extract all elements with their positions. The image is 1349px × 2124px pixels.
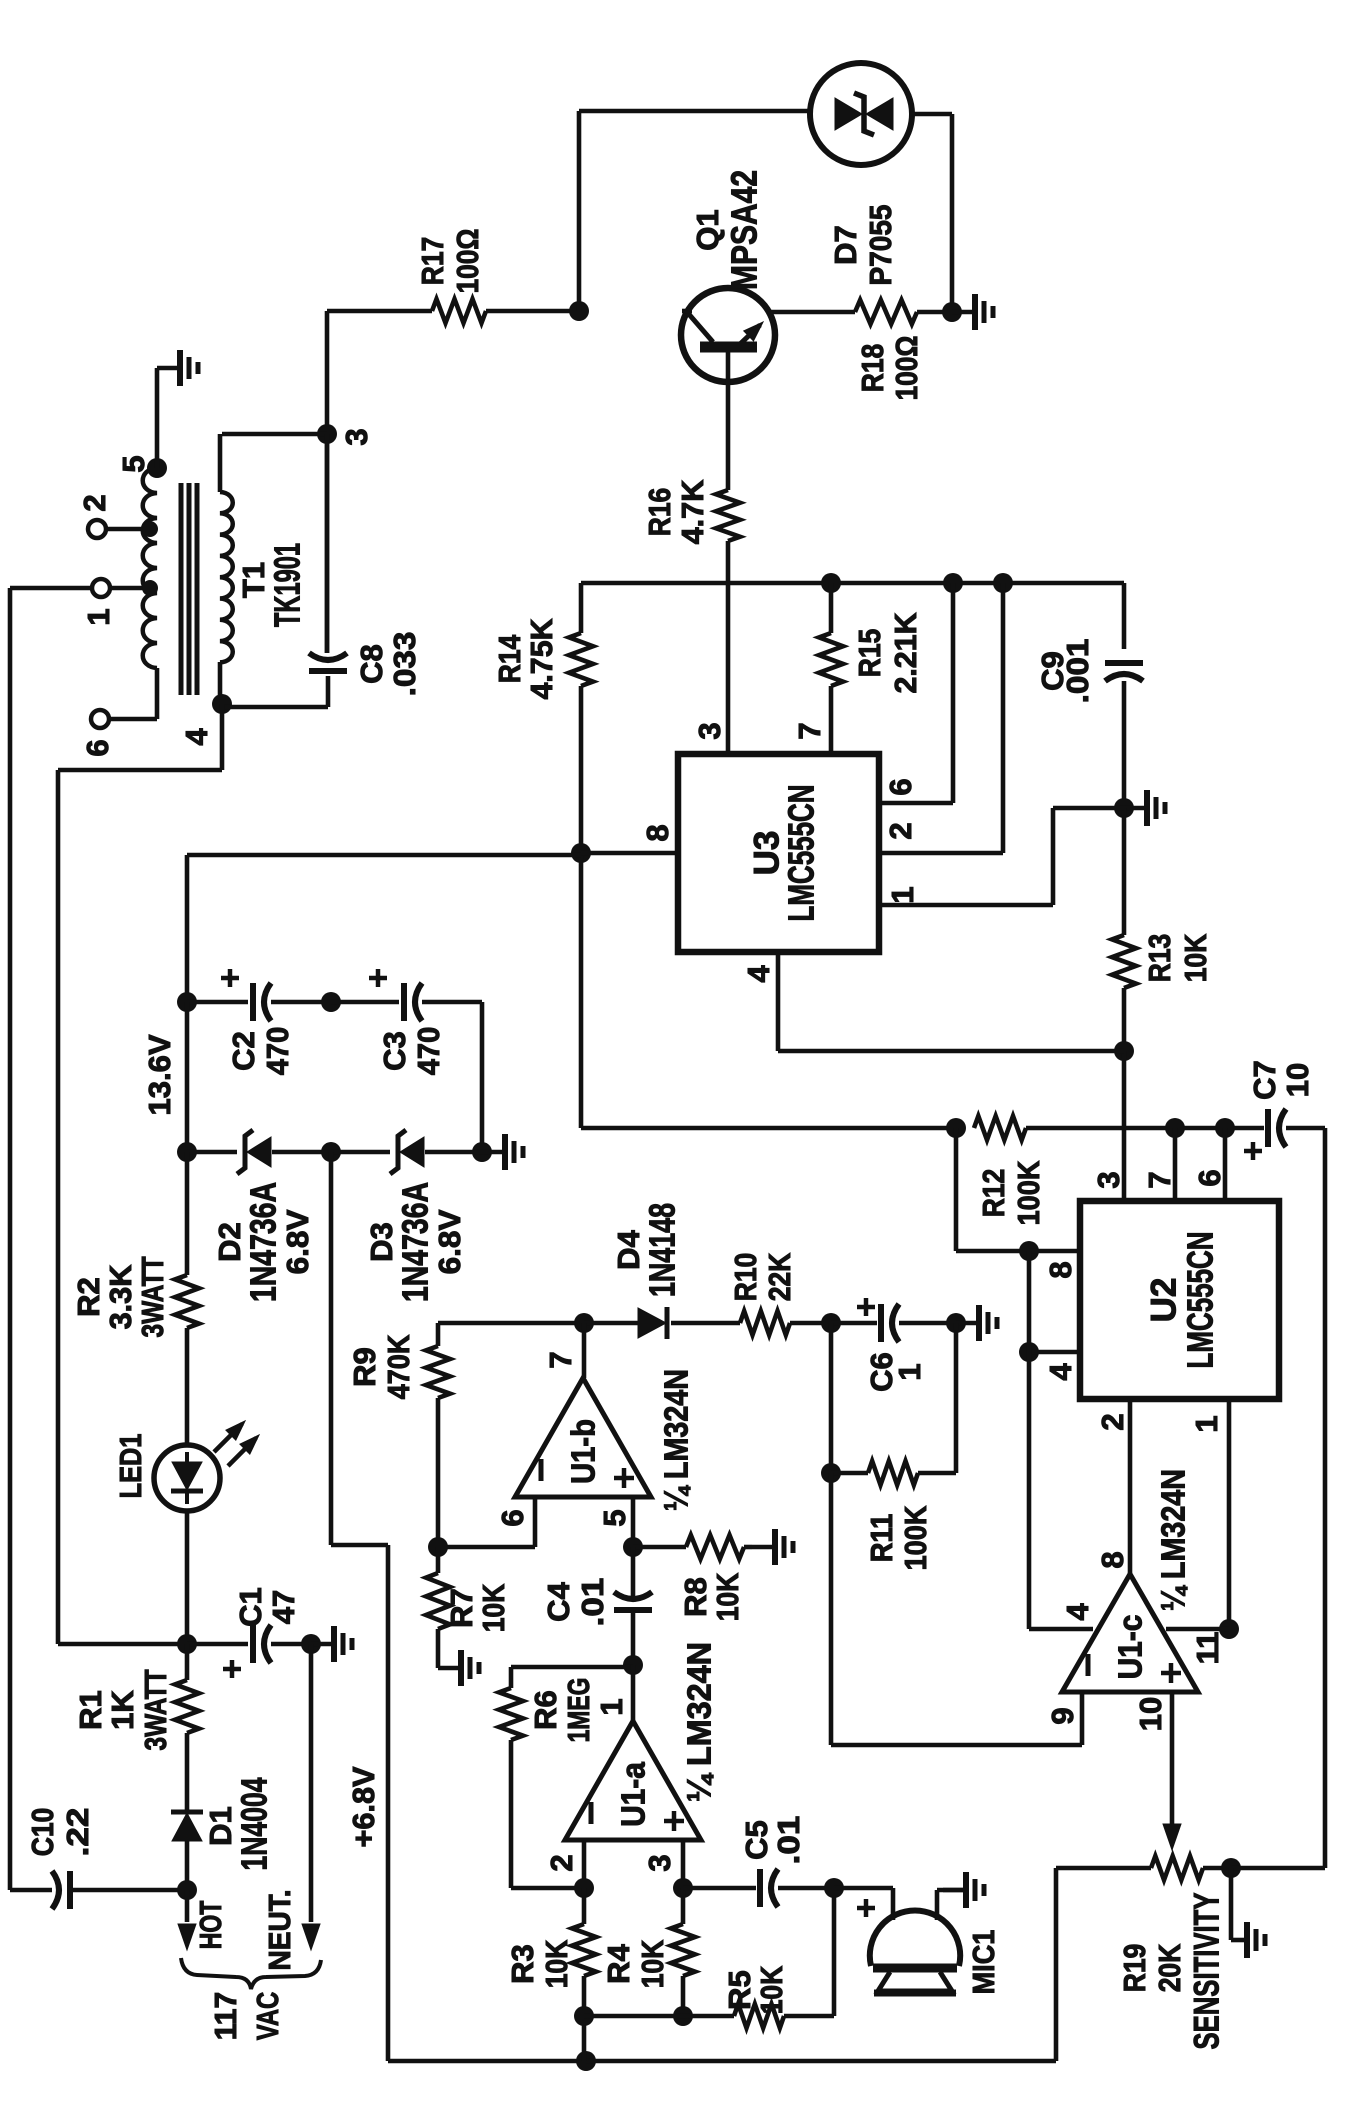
svg-text:4.7K: 4.7K (675, 479, 710, 544)
wire: to C10 (10, 1888, 52, 1893)
wire: U3 pin4 down (776, 952, 781, 1051)
resistor R15 (819, 633, 843, 686)
wire: rail to C7 (1026, 1126, 1264, 1131)
svg-text:R13: R13 (1142, 934, 1177, 983)
LED1 arrow 1 (214, 1424, 242, 1452)
svg-text:R17: R17 (415, 237, 450, 286)
resistor R17 (432, 299, 486, 323)
junction R19 right (1221, 1858, 1241, 1878)
wire: T1 pin3 lead (222, 432, 327, 437)
wire: pin1 to left rail (10, 586, 92, 591)
wire: U3 pin8 to node (581, 851, 678, 856)
wire: U2 pin2 to U1-c out (1128, 1399, 1133, 1574)
capacitor C2 (250, 983, 256, 1021)
junction U2 pin8 (1019, 1241, 1039, 1261)
svg-text:1: 1 (594, 1698, 629, 1715)
wire: pin5 to ground (155, 368, 160, 468)
wire: pin9 rail (831, 1743, 1082, 1748)
svg-text:6: 6 (80, 739, 115, 756)
ground at R19 (1231, 1938, 1245, 1943)
LED LED1 (154, 1445, 220, 1511)
wire: LED1 to C1 node (185, 1511, 190, 1644)
svg-text:3: 3 (1091, 1171, 1126, 1188)
wire: U1-c pin9 (1080, 1692, 1085, 1745)
svg-text:R18: R18 (855, 344, 890, 393)
wire: to R6 (511, 1665, 633, 1670)
junction R12 left (946, 1118, 966, 1138)
T1 core (179, 483, 184, 695)
wire: right rail down to R19 (1323, 1128, 1328, 1868)
junction C6/R11 (821, 1313, 841, 1333)
junction pin3/C5/R4 (673, 1878, 693, 1898)
wire: Q1 base stem (726, 350, 731, 384)
svg-text:1: 1 (81, 608, 116, 625)
svg-text:LMC555CN: LMC555CN (1180, 1232, 1221, 1369)
capacitor C9 (1105, 660, 1143, 666)
svg-text:100K: 100K (898, 1505, 933, 1570)
svg-text:C4: C4 (541, 1581, 576, 1621)
svg-text:6: 6 (495, 1509, 530, 1526)
junction U2 pin4 (1019, 1342, 1039, 1362)
junction R4/R5 (673, 2006, 693, 2026)
diode D3 zener (390, 1130, 406, 1174)
HOT arrow (178, 1924, 196, 1950)
svg-text:U2: U2 (1144, 1278, 1183, 1323)
svg-text:R14: R14 (492, 634, 527, 683)
svg-text:22K: 22K (762, 1252, 797, 1301)
diode D1 (172, 1813, 202, 1841)
junction U3 pin8 node (571, 843, 591, 863)
svg-text:1: 1 (1189, 1415, 1224, 1432)
svg-text:HOT: HOT (193, 1901, 228, 1950)
wire: 13.6V down (185, 1002, 190, 1152)
wire: left winding bottom stem (155, 668, 160, 719)
diode D2 zener (237, 1130, 253, 1174)
junction R11 left (821, 1463, 841, 1483)
svg-text:7: 7 (1142, 1171, 1177, 1188)
wire: U1-c pin11 lead (1166, 1627, 1229, 1632)
wire: junction up to D7 rail (577, 111, 582, 311)
capacitor C5 (757, 1869, 763, 1907)
op-amp U1-b (515, 1378, 651, 1497)
svg-text:NEUT.: NEUT. (262, 1890, 297, 1971)
junction R18/D7/gnd (942, 302, 962, 322)
svg-text:4: 4 (179, 728, 214, 746)
svg-text:10K: 10K (1178, 933, 1213, 982)
svg-text:10K: 10K (476, 1583, 511, 1632)
wire: pin3 to C5 (683, 1886, 756, 1891)
svg-text:TK1901: TK1901 (267, 543, 308, 627)
svg-text:LED1: LED1 (113, 1434, 148, 1499)
wire: R1 to D1 (185, 1733, 190, 1813)
wire: U3 top rail (581, 581, 1122, 586)
wire: R15 to pin7 (829, 686, 834, 754)
svg-text:1N4148: 1N4148 (642, 1203, 683, 1297)
svg-text:1K: 1K (105, 1690, 140, 1730)
svg-text:¼ LM324N: ¼ LM324N (681, 1642, 718, 1802)
wire: D1 to C10 node (185, 1841, 190, 1890)
svg-text:2: 2 (1095, 1413, 1130, 1430)
wire: 6.8V rail down (329, 1152, 334, 1545)
wire: node3 corner to R17 (327, 309, 432, 314)
wire: R19 to gnd (1229, 1868, 1234, 1940)
svg-text:470: 470 (411, 1027, 446, 1076)
svg-text:¼ LM324N: ¼ LM324N (1155, 1469, 1192, 1611)
wire: U2 pin6 (1223, 1128, 1228, 1201)
svg-text:D3: D3 (364, 1222, 399, 1262)
wire: down to U2 rail (579, 853, 584, 1128)
junction U1-b out (574, 1313, 594, 1333)
junction C1/gnd (301, 1634, 321, 1654)
wire: R11 up to C6 node (954, 1323, 959, 1473)
R19 wiper arrow (1163, 1824, 1181, 1850)
svg-text:2: 2 (883, 822, 918, 839)
junction D3/gnd (472, 1142, 492, 1162)
junction T1 pin 4 (212, 694, 232, 714)
svg-text:8: 8 (1095, 1551, 1130, 1568)
wire: node3 down to C8 (325, 434, 330, 653)
svg-text:C3: C3 (377, 1031, 412, 1071)
transistor Q1 (681, 288, 775, 382)
junction pin6 rail (943, 573, 963, 593)
junction pin2/R3/R6 (574, 1878, 594, 1898)
wire: down to U2 pin3 (1122, 1051, 1127, 1201)
wire: corner to R14 (579, 583, 584, 633)
wire: pin6 lead (109, 717, 157, 722)
wire: U3 pin1 across (879, 903, 1053, 908)
wire: 13.6V rail (187, 853, 581, 858)
wire: C3 down (480, 1002, 485, 1152)
svg-text:R16: R16 (642, 488, 677, 537)
resistor R3 (572, 1924, 596, 1976)
wire: U1-c pin10 to wiper (1170, 1692, 1175, 1824)
wire: left rail down (56, 770, 61, 1644)
svg-text:5: 5 (116, 455, 151, 472)
svg-text:1: 1 (885, 886, 920, 903)
svg-text:6: 6 (883, 778, 918, 795)
junction C10/D1 (177, 1880, 197, 1900)
capacitor C10 (67, 1871, 73, 1909)
svg-text:3: 3 (642, 1854, 677, 1871)
junction U3 pin1/gnd (1114, 798, 1134, 818)
svg-text:6.8V: 6.8V (280, 1209, 315, 1274)
wire: Q1 emitter to R18 (770, 310, 855, 315)
junction C2/C3 (321, 992, 341, 1012)
diode D4 (638, 1308, 666, 1338)
svg-text:10: 10 (1133, 1697, 1168, 1731)
plus C7 (1244, 1149, 1262, 1154)
svg-text:.001: .001 (1060, 639, 1095, 704)
wire: feedback rail (438, 1321, 584, 1326)
resistor R14 (569, 633, 593, 686)
svg-text:U1-b: U1-b (565, 1419, 602, 1484)
wire: bottom rail (388, 2059, 586, 2064)
resistor R9 (426, 1346, 450, 1398)
svg-text:R7: R7 (444, 1588, 479, 1628)
wire: R16 to U3 pin3 (726, 541, 731, 754)
junction bottom rail (576, 2051, 596, 2071)
resistor R12 (974, 1116, 1026, 1140)
wire: to R19 (1056, 1866, 1151, 1871)
wire: right winding bottom stem (218, 662, 223, 704)
resistor R13 (1112, 935, 1136, 988)
resistor R18 (855, 300, 917, 324)
wire: R7 to gnd (436, 1629, 441, 1668)
junction C6/gnd (946, 1313, 966, 1333)
svg-text:4: 4 (741, 965, 776, 983)
wire: down to R11 (829, 1323, 834, 1473)
svg-text:C8: C8 (354, 644, 389, 684)
svg-text:R9: R9 (347, 1347, 382, 1387)
wire: to U1-a output (631, 1665, 636, 1721)
svg-text:VAC: VAC (250, 1992, 285, 2041)
junction C1 node (177, 1634, 197, 1654)
resistor R16 (716, 490, 740, 541)
capacitor C4 (614, 1607, 652, 1613)
capacitor C7 (1265, 1109, 1271, 1147)
svg-text:C1: C1 (233, 1587, 268, 1627)
svg-text:R11: R11 (864, 1514, 899, 1563)
ground at R18 (952, 310, 973, 315)
svg-text:D1: D1 (203, 1806, 238, 1846)
svg-text:470K: 470K (381, 1334, 416, 1399)
wire: pin4 down (220, 704, 225, 770)
wire: far left rail (8, 588, 13, 1890)
plus MIC1 (857, 1906, 875, 1911)
wire: U1-c pin4 lead (1029, 1627, 1093, 1632)
ground at R8 (752, 1545, 773, 1550)
wire: R5 up to C5 node (832, 1888, 837, 2016)
svg-text:.01: .01 (575, 1578, 610, 1627)
wire: R3 to rails (582, 1976, 587, 2061)
wire: U2 pin8 lead (1029, 1249, 1080, 1254)
svg-text:C10: C10 (25, 1808, 60, 1857)
ground at T1 pin 5 (157, 366, 178, 371)
wire: pin2 tap (106, 527, 150, 532)
svg-text:470: 470 (260, 1027, 295, 1076)
svg-text:10K: 10K (635, 1939, 670, 1988)
ground at U3 pin1 node (1124, 806, 1145, 811)
junction D2/D3 (321, 1142, 341, 1162)
svg-text:1MEG: 1MEG (561, 1678, 596, 1743)
ground at MIC1 (943, 1888, 964, 1893)
svg-text:8: 8 (1043, 1261, 1078, 1278)
svg-text:20K: 20K (1152, 1943, 1187, 1992)
svg-text:10K: 10K (539, 1939, 574, 1988)
wire: node3 vertical (325, 311, 330, 434)
plus C1 (223, 1667, 241, 1672)
svg-text:R19: R19 (1117, 1944, 1152, 1993)
resistor R4 (671, 1924, 695, 1976)
svg-text:D7: D7 (828, 225, 863, 265)
junction R13/U3 pin4 (1114, 1041, 1134, 1061)
junction U2 pin7 rail (1165, 1118, 1185, 1138)
wire: pin4 rail down (1027, 1251, 1032, 1629)
svg-text:+6.8V: +6.8V (346, 1766, 381, 1847)
diode D7 (bidirectional) (810, 63, 912, 165)
junction R15 top (821, 573, 841, 593)
capacitor C1 (250, 1625, 256, 1663)
wire: to U3 pin6 (951, 583, 956, 803)
svg-text:U1-c: U1-c (1112, 1615, 1149, 1680)
wire: pin4 to C8 (222, 705, 328, 710)
T1 pin 1 terminal (92, 579, 110, 597)
svg-text:.033: .033 (387, 632, 422, 697)
junction U2 pin6 rail (1215, 1118, 1235, 1138)
wire: R3-R4 rail (584, 2014, 683, 2019)
wire: up to R19 (1054, 1868, 1059, 2061)
svg-text:C5: C5 (739, 1820, 774, 1860)
svg-text:R4: R4 (601, 1943, 636, 1983)
junction pin2 rail (993, 573, 1013, 593)
plus C3 (369, 976, 387, 981)
svg-text:4: 4 (1043, 1363, 1078, 1381)
svg-text:2.21K: 2.21K (888, 612, 923, 694)
resistor R6 (499, 1688, 523, 1740)
wire: U1-b pin5 (631, 1497, 636, 1547)
microphone MIC1 (834, 1886, 893, 1891)
wire: R13 to U3 pin4 node (1122, 988, 1127, 1051)
svg-text:D2: D2 (212, 1222, 247, 1262)
resistor R11 (868, 1461, 918, 1485)
svg-text:7: 7 (792, 722, 827, 739)
svg-text:2: 2 (544, 1854, 579, 1871)
svg-text:1: 1 (892, 1363, 927, 1380)
svg-text:R15: R15 (852, 629, 887, 678)
svg-text:MPSA42: MPSA42 (724, 170, 765, 290)
svg-text:.01: .01 (771, 1816, 806, 1865)
resistor R1 (175, 1680, 199, 1733)
svg-text:D4: D4 (611, 1229, 646, 1269)
svg-text:5: 5 (597, 1509, 632, 1526)
svg-text:R3: R3 (505, 1944, 540, 1984)
junction D2 left (177, 1142, 197, 1162)
wire: 6.8V rail to bottom (386, 1545, 391, 2061)
wire: bottom rail right (586, 2059, 1056, 2064)
capacitor C6 (878, 1304, 884, 1342)
svg-text:SENSITIVITY: SENSITIVITY (1187, 1893, 1226, 2050)
svg-text:9: 9 (1045, 1707, 1080, 1724)
capacitor C8 (309, 668, 347, 674)
svg-text:3: 3 (692, 722, 727, 739)
wire: across to left (58, 768, 222, 773)
resistor R8 (686, 1535, 744, 1559)
capacitor C3 (401, 983, 407, 1021)
junction C5/R5/mic (824, 1878, 844, 1898)
svg-text:R8: R8 (678, 1577, 713, 1617)
svg-text:47: 47 (266, 1590, 301, 1624)
wire: U2 pin1 down (1227, 1399, 1232, 1629)
ground at R7 (438, 1666, 459, 1671)
resistor R5 (734, 2004, 784, 2028)
wire: U1-a pin2 (582, 1840, 587, 1888)
plus C2 (221, 976, 239, 981)
wire: pin1 tap (110, 586, 150, 591)
wire: U2 pin7 (1173, 1128, 1178, 1201)
op-amp U2 LMC555CN box (1080, 1201, 1279, 1399)
svg-text:100Ω: 100Ω (889, 336, 924, 401)
junction R3/R4 rail (574, 2006, 594, 2026)
svg-text:6: 6 (1192, 1169, 1227, 1186)
svg-text:117: 117 (208, 1992, 243, 2041)
svg-text:U1-a: U1-a (615, 1762, 652, 1827)
plus C6 (857, 1305, 875, 1310)
svg-text:10K: 10K (710, 1572, 745, 1621)
svg-text:1N4004: 1N4004 (234, 1778, 275, 1871)
svg-text:10K: 10K (754, 1965, 789, 2014)
svg-text:13.6V: 13.6V (142, 1034, 177, 1115)
T1 pin 5 junction (147, 458, 167, 478)
junction pin1/pin11 (1219, 1619, 1239, 1639)
wire: NEUT lead (309, 1644, 314, 1922)
wire: R6 to pin2 node (511, 1886, 584, 1891)
svg-text:2: 2 (77, 494, 112, 511)
svg-text:8: 8 (640, 824, 675, 841)
junction C4/R6/U1-a (623, 1655, 643, 1675)
wire: D7 to corner (912, 112, 952, 117)
svg-text:1N4736A: 1N4736A (243, 1182, 284, 1302)
op-amp U1-c (1062, 1574, 1198, 1692)
wire: top rail to D7 (579, 109, 810, 114)
resistor R7 (426, 1573, 450, 1629)
svg-text:10: 10 (1280, 1063, 1315, 1097)
svg-text:T1: T1 (236, 562, 271, 598)
wire: R9 top (436, 1323, 441, 1346)
svg-text:.22: .22 (60, 1808, 95, 1857)
wire: pin4 across to R13 node (778, 1049, 1124, 1054)
LED1 arrow 2 (228, 1438, 256, 1466)
svg-text:4: 4 (1060, 1603, 1095, 1621)
op-amp U3 LMC555CN box (678, 754, 879, 952)
wire: to U3 pin2 (1001, 583, 1006, 853)
wire: U2 top rail (581, 1126, 956, 1131)
wire: U1-a pin3 (681, 1840, 686, 1888)
wire: R17 to junction (486, 309, 579, 314)
wire: to U2 pin8 (954, 1128, 959, 1251)
svg-text:R10: R10 (728, 1253, 763, 1302)
svg-text:3.3K: 3.3K (103, 1264, 138, 1329)
wire: R2 to LED1 (185, 1328, 190, 1445)
ground at C1 (311, 1642, 332, 1647)
svg-text:R12: R12 (976, 1169, 1011, 1218)
T1 right winding (220, 492, 233, 662)
svg-text:3: 3 (339, 428, 374, 445)
svg-text:3WATT: 3WATT (135, 1256, 170, 1337)
svg-text:6.8V: 6.8V (432, 1209, 467, 1274)
wire: U2 pin4 lead (1029, 1350, 1080, 1355)
ground at C6 (956, 1321, 977, 1326)
wire: R6 down (509, 1740, 514, 1888)
wire: down to U1-c pin9 rail (829, 1473, 834, 1745)
wire: rail corner down to C9 (1122, 583, 1127, 649)
wire: R9 to R7 node (436, 1398, 441, 1548)
resistor R2 (175, 1275, 199, 1328)
svg-text:R6: R6 (528, 1690, 563, 1730)
wire: HOT lead (185, 1890, 190, 1922)
svg-text:MIC1: MIC1 (966, 1930, 1001, 1995)
wire: U1-b pin6 (533, 1497, 538, 1547)
wire: base to R16 (726, 384, 731, 490)
svg-text:C7: C7 (1247, 1060, 1282, 1100)
svg-text:C2: C2 (226, 1031, 261, 1071)
NEUT arrow (302, 1924, 320, 1950)
junction R7/R9/pin6 (428, 1537, 448, 1557)
junction R17/Q1 base rail (569, 301, 589, 321)
svg-text:7: 7 (543, 1351, 578, 1368)
svg-text:P7055: P7055 (863, 205, 898, 286)
svg-text:Q1: Q1 (690, 209, 725, 250)
op-amp U1-a (565, 1721, 701, 1840)
